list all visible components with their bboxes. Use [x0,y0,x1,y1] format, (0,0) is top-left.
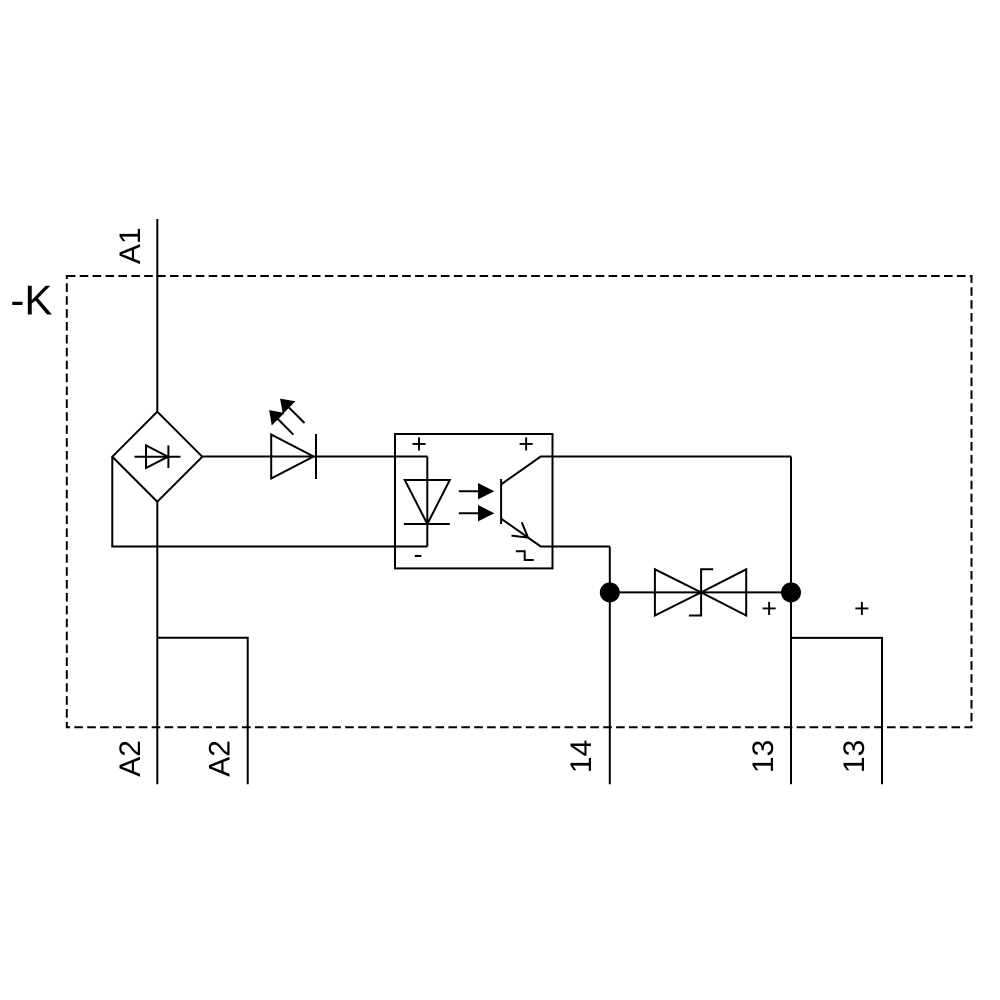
svg-text:14: 14 [565,740,598,773]
svg-text:+: + [518,429,534,459]
svg-text:A1: A1 [114,227,147,264]
svg-text:-K: -K [10,277,52,324]
svg-text:13: 13 [747,740,780,773]
svg-text:13: 13 [838,740,871,773]
svg-text:+: + [854,594,870,624]
svg-text:+: + [761,594,777,624]
svg-text:-: - [414,539,423,569]
svg-text:+: + [411,429,427,459]
svg-text:A2: A2 [204,740,237,777]
svg-text:A2: A2 [114,740,147,777]
